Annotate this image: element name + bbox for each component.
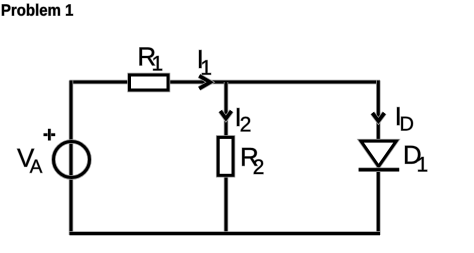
label D1 [405, 146, 427, 172]
wire right (D1 branch) [376, 81, 381, 236]
wire middle (R2 branch) [224, 82, 229, 234]
resistor R1 [130, 75, 169, 90]
VA plus polarity mark [44, 129, 56, 141]
label I1 [199, 50, 211, 75]
wire left (VA branch) [69, 81, 74, 236]
label I2 [237, 108, 250, 131]
voltage source VA (circle) [54, 142, 90, 178]
current arrow I1 [199, 76, 210, 89]
diode D1 (triangle) [361, 141, 396, 166]
wire top (node between R1 and diode branch) [70, 80, 381, 85]
label R2 [242, 148, 263, 174]
resistor R2 [218, 137, 233, 175]
current arrow I2 [220, 111, 231, 119]
label R1 [140, 48, 163, 71]
label VA [17, 149, 42, 173]
label ID [397, 107, 413, 130]
current arrow ID [372, 113, 384, 121]
title "Problem 1" [2, 4, 73, 16]
wire bottom (return) [70, 231, 381, 236]
diode D1 cathode bar [359, 167, 400, 172]
